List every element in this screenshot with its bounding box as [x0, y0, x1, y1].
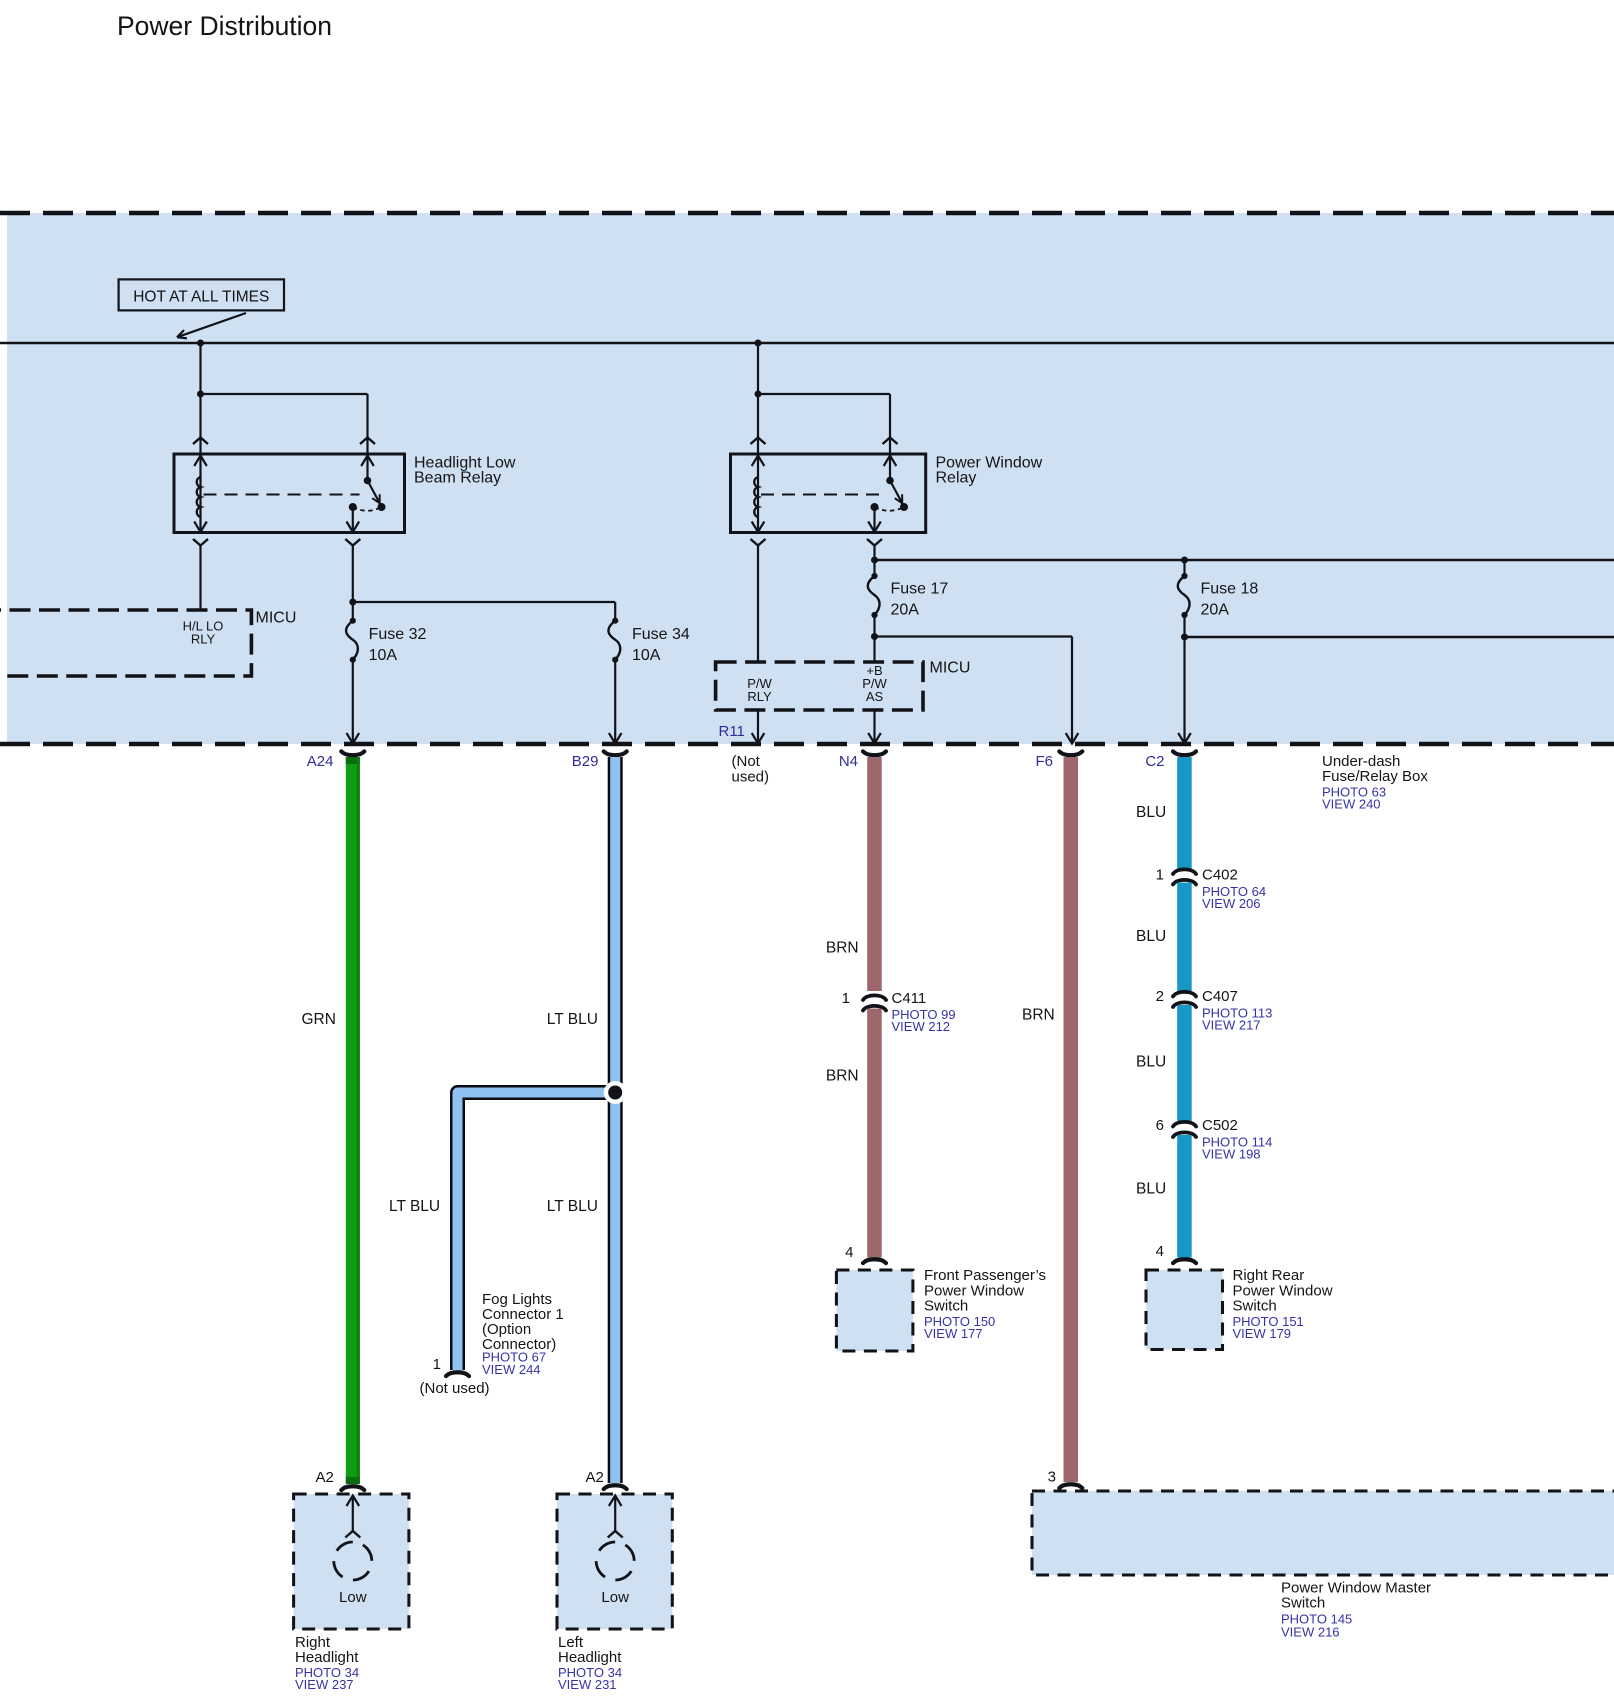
- svg-text:Right Rear: Right Rear: [1233, 1267, 1305, 1284]
- svg-text:1: 1: [1156, 867, 1164, 884]
- svg-text:3: 3: [1048, 1468, 1056, 1485]
- svg-text:BLU: BLU: [1136, 928, 1166, 945]
- svg-text:VIEW 212: VIEW 212: [892, 1019, 951, 1034]
- svg-text:1: 1: [433, 1356, 441, 1373]
- svg-text:BRN: BRN: [826, 940, 859, 957]
- svg-text:Switch: Switch: [1281, 1595, 1325, 1612]
- svg-text:VIEW 198: VIEW 198: [1202, 1147, 1261, 1162]
- svg-text:R11: R11: [719, 723, 745, 740]
- svg-text:(Not: (Not: [732, 753, 761, 770]
- svg-text:BLU: BLU: [1136, 1181, 1166, 1198]
- svg-text:Low: Low: [339, 1589, 367, 1606]
- svg-text:C407: C407: [1202, 988, 1238, 1005]
- svg-text:C502: C502: [1202, 1117, 1238, 1134]
- svg-text:BLU: BLU: [1136, 804, 1166, 821]
- svg-text:6: 6: [1156, 1117, 1164, 1134]
- svg-text:4: 4: [845, 1244, 853, 1261]
- svg-text:A2: A2: [586, 1469, 604, 1486]
- svg-text:Fuse 32: Fuse 32: [369, 626, 427, 643]
- svg-text:VIEW 179: VIEW 179: [1233, 1326, 1292, 1341]
- svg-text:VIEW 240: VIEW 240: [1322, 797, 1381, 812]
- svg-text:AS: AS: [866, 689, 884, 704]
- svg-text:VIEW 231: VIEW 231: [558, 1677, 617, 1692]
- svg-text:Power Distribution: Power Distribution: [117, 11, 332, 41]
- svg-text:Headlight: Headlight: [558, 1649, 622, 1666]
- svg-text:RLY: RLY: [191, 632, 216, 647]
- svg-text:20A: 20A: [891, 602, 920, 619]
- svg-text:Headlight: Headlight: [295, 1649, 359, 1666]
- svg-text:BLU: BLU: [1136, 1054, 1166, 1071]
- svg-text:Fuse/Relay Box: Fuse/Relay Box: [1322, 768, 1428, 785]
- svg-text:VIEW 216: VIEW 216: [1281, 1625, 1340, 1640]
- svg-text:VIEW 237: VIEW 237: [295, 1677, 354, 1692]
- svg-text:MICU: MICU: [930, 660, 971, 677]
- svg-text:RLY: RLY: [747, 689, 772, 704]
- svg-text:Fuse 17: Fuse 17: [891, 581, 949, 598]
- svg-text:Switch: Switch: [1233, 1298, 1277, 1315]
- svg-text:4: 4: [1156, 1243, 1164, 1260]
- svg-text:Switch: Switch: [924, 1298, 968, 1315]
- svg-text:Relay: Relay: [936, 470, 977, 487]
- svg-text:GRN: GRN: [302, 1011, 336, 1028]
- svg-text:20A: 20A: [1201, 602, 1230, 619]
- svg-text:1: 1: [842, 990, 850, 1007]
- svg-text:C411: C411: [892, 990, 927, 1007]
- svg-text:BRN: BRN: [826, 1067, 859, 1084]
- svg-text:VIEW 217: VIEW 217: [1202, 1018, 1261, 1033]
- svg-text:B29: B29: [572, 753, 599, 770]
- svg-text:A2: A2: [316, 1469, 334, 1486]
- svg-text:2: 2: [1156, 988, 1164, 1005]
- svg-text:(Not used): (Not used): [420, 1380, 490, 1397]
- svg-text:LT BLU: LT BLU: [547, 1011, 598, 1028]
- svg-text:A24: A24: [307, 753, 334, 770]
- svg-text:C402: C402: [1202, 867, 1238, 884]
- svg-text:F6: F6: [1035, 753, 1053, 770]
- svg-text:N4: N4: [839, 753, 858, 770]
- svg-text:10A: 10A: [369, 647, 398, 664]
- svg-text:MICU: MICU: [256, 610, 297, 627]
- svg-text:10A: 10A: [632, 647, 661, 664]
- svg-text:Fuse 34: Fuse 34: [632, 626, 690, 643]
- svg-text:LT BLU: LT BLU: [389, 1198, 440, 1215]
- svg-text:VIEW 206: VIEW 206: [1202, 896, 1261, 911]
- svg-text:VIEW 177: VIEW 177: [924, 1326, 983, 1341]
- svg-text:VIEW 244: VIEW 244: [482, 1362, 541, 1377]
- svg-text:Beam Relay: Beam Relay: [414, 470, 501, 487]
- svg-text:Low: Low: [601, 1589, 629, 1606]
- svg-text:LT BLU: LT BLU: [547, 1198, 598, 1215]
- svg-text:used): used): [732, 769, 770, 786]
- svg-text:Front Passenger’s: Front Passenger’s: [924, 1267, 1046, 1284]
- svg-text:HOT AT ALL TIMES: HOT AT ALL TIMES: [133, 289, 269, 306]
- svg-text:Fuse 18: Fuse 18: [1201, 581, 1259, 598]
- svg-text:C2: C2: [1145, 753, 1164, 770]
- svg-text:BRN: BRN: [1022, 1007, 1055, 1024]
